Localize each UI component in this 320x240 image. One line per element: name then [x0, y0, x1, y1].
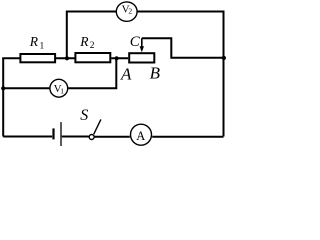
svg-text:2: 2 — [90, 41, 95, 51]
svg-text:1: 1 — [60, 87, 64, 96]
svg-text:A: A — [136, 129, 145, 143]
svg-text:S: S — [80, 107, 88, 124]
svg-text:B: B — [150, 64, 161, 83]
svg-text:R: R — [29, 34, 39, 49]
svg-text:C: C — [130, 34, 141, 50]
svg-text:A: A — [120, 65, 132, 84]
svg-text:R: R — [79, 34, 89, 49]
svg-text:2: 2 — [128, 7, 132, 16]
svg-text:1: 1 — [40, 42, 45, 52]
